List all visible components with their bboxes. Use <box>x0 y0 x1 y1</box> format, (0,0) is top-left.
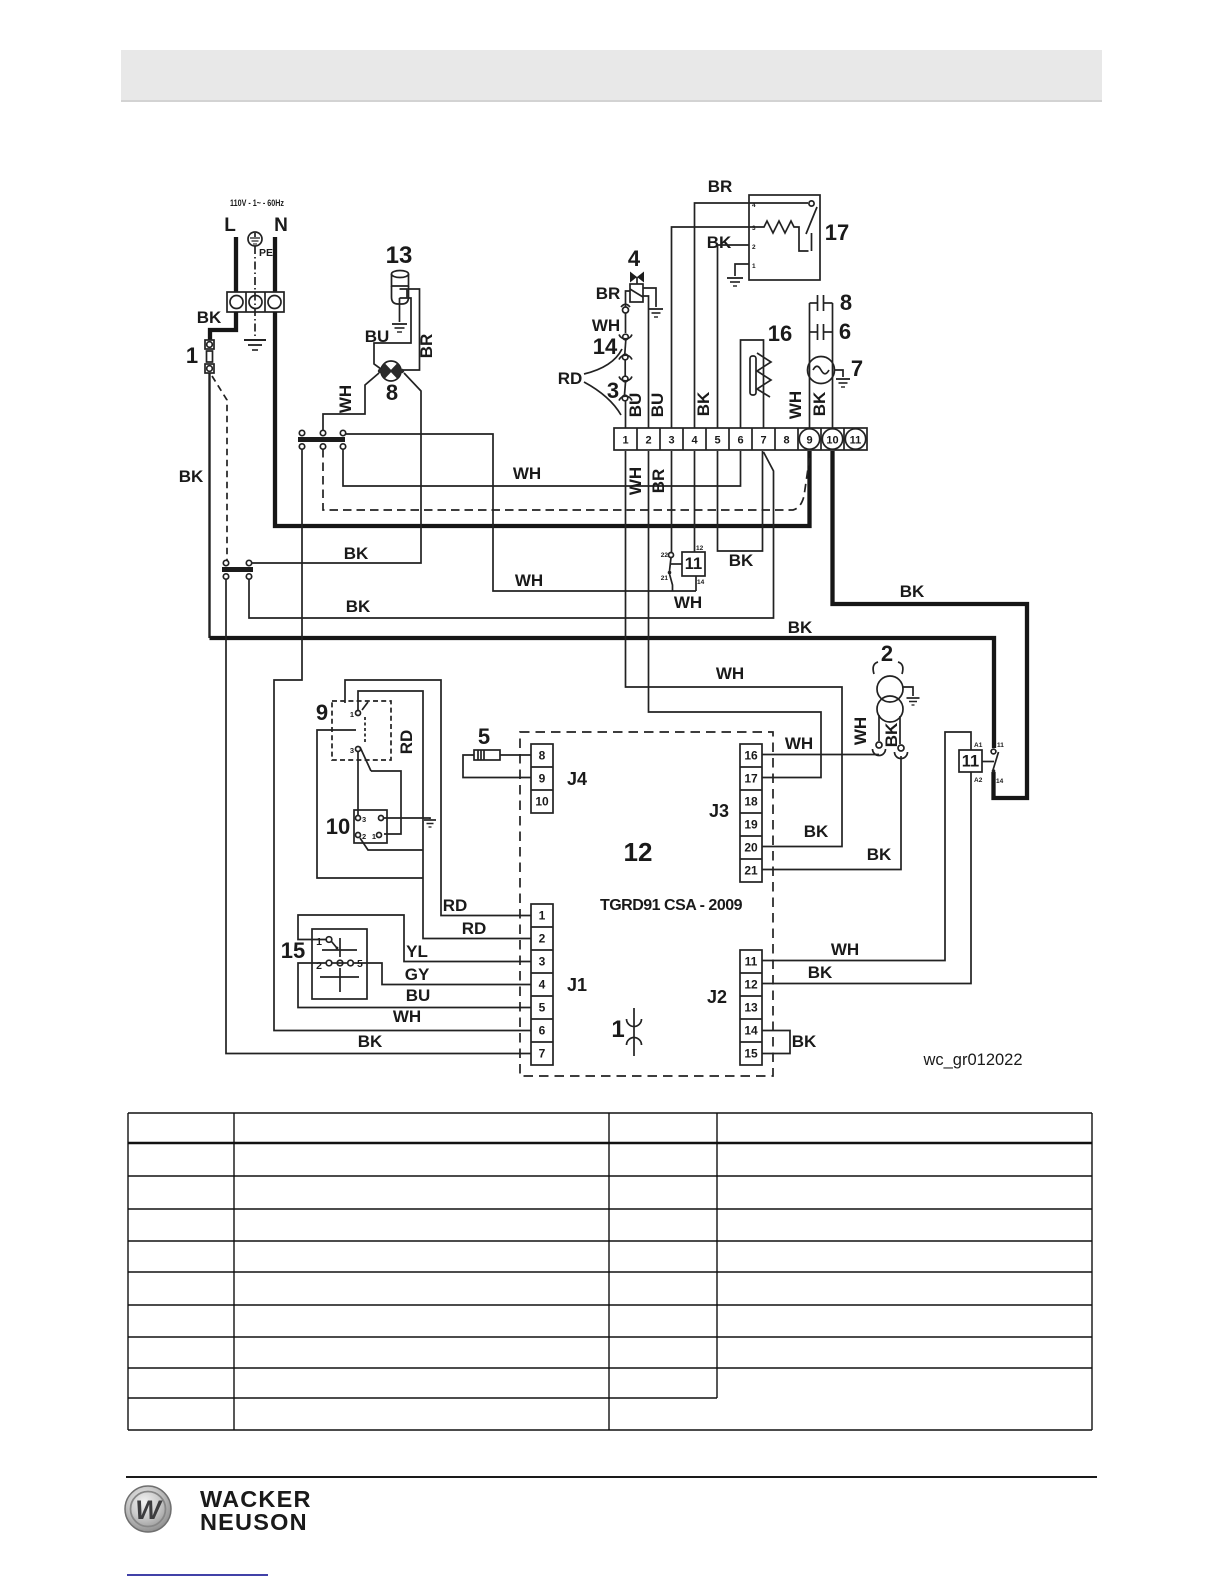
wire WH terminal1 to J3-20 <box>626 451 843 847</box>
wire switch9 output to thermostat pin1 <box>371 771 401 834</box>
wire thermostat pin2 diagonal <box>360 838 423 850</box>
thermostat 10 <box>354 810 387 843</box>
lamp 8 <box>378 361 404 381</box>
svg-text:7: 7 <box>851 356 863 381</box>
wire pin1 to ground <box>735 264 749 276</box>
wire BK thick from relay contact to terminal 10 <box>833 451 1028 798</box>
svg-text:12: 12 <box>744 978 758 992</box>
wire AC to ground <box>835 370 844 377</box>
switch in 17 <box>806 201 817 251</box>
svg-text:3: 3 <box>539 955 546 969</box>
wire WH transformer tap with socket <box>873 715 886 756</box>
svg-text:GY: GY <box>405 965 430 984</box>
svg-text:J1: J1 <box>567 975 587 995</box>
svg-text:RD: RD <box>397 730 416 755</box>
wire BK cap riser to terminal 10 <box>832 303 834 428</box>
logo medallion <box>125 1486 171 1532</box>
disconnect symbol 1 inside box 12 <box>627 1008 642 1056</box>
svg-text:W: W <box>135 1495 163 1525</box>
svg-text:12: 12 <box>624 837 653 867</box>
svg-text:BR: BR <box>649 469 668 494</box>
connector J1 <box>531 904 553 1065</box>
svg-text:J3: J3 <box>709 801 729 821</box>
terminal strip 1-11 <box>614 428 867 450</box>
wire BK connector to J1-7 <box>226 579 531 1054</box>
box 17 (glow plug controller) <box>749 195 820 280</box>
ground for 13 <box>392 324 407 332</box>
wire WH junction to relay 11 <box>346 434 696 591</box>
svg-text:11: 11 <box>997 742 1004 749</box>
svg-text:8: 8 <box>840 290 852 315</box>
header gray bar <box>121 50 1102 102</box>
connector J3 <box>740 744 762 882</box>
connector J2 <box>740 950 762 1065</box>
wire fuse5 to J4-8 <box>500 754 531 756</box>
capacitor 8 <box>810 295 833 311</box>
relay 11 left <box>661 545 705 586</box>
svg-text:16: 16 <box>768 321 792 346</box>
svg-text:WH: WH <box>786 391 805 419</box>
svg-text:7: 7 <box>760 435 766 447</box>
jumper J2-14 to J2-15 <box>762 1031 790 1054</box>
wire BR valve to connector 14 <box>626 291 631 307</box>
svg-text:13: 13 <box>744 1001 758 1015</box>
svg-text:2: 2 <box>316 960 322 972</box>
wire BR terminal3 to contact 22 <box>671 451 673 552</box>
footer link line <box>127 1574 268 1576</box>
svg-text:WH: WH <box>592 316 620 335</box>
svg-text:TGRD91 CSA - 2009: TGRD91 CSA - 2009 <box>600 897 743 914</box>
svg-text:1: 1 <box>539 909 546 923</box>
svg-text:BK: BK <box>788 618 813 637</box>
svg-text:1: 1 <box>316 936 322 948</box>
ground for 10 <box>424 820 436 827</box>
svg-text:1: 1 <box>622 435 628 447</box>
svg-text:BK: BK <box>808 963 833 982</box>
terminal block L-PE-N <box>227 292 284 312</box>
svg-text:11: 11 <box>685 555 702 573</box>
svg-text:BK: BK <box>792 1032 817 1051</box>
svg-text:14: 14 <box>697 579 705 586</box>
svg-text:3: 3 <box>668 435 674 447</box>
svg-text:A2: A2 <box>974 777 983 784</box>
PE terminal symbol <box>248 232 273 259</box>
wire dashed junction to terminal 9 <box>323 449 810 510</box>
wire PE dash-dot <box>254 246 256 338</box>
svg-text:6: 6 <box>539 1024 546 1038</box>
wire J3-16 to WH socket <box>762 754 879 756</box>
switch 9 dashed box <box>332 701 391 771</box>
wire J3-21 to BK socket <box>762 756 901 870</box>
svg-text:WH: WH <box>831 940 859 959</box>
connector pair 3 <box>619 376 632 401</box>
svg-text:21: 21 <box>744 864 758 878</box>
svg-text:19: 19 <box>744 818 758 832</box>
svg-text:2: 2 <box>645 435 651 447</box>
svg-text:BK: BK <box>694 391 713 416</box>
svg-text:4: 4 <box>628 246 641 271</box>
svg-text:WH: WH <box>785 734 813 753</box>
svg-text:BU: BU <box>365 327 390 346</box>
svg-text:11: 11 <box>745 955 758 969</box>
svg-text:2: 2 <box>539 932 546 946</box>
timer switch 15 <box>312 929 367 999</box>
wire BR plug to lamp right <box>403 289 420 370</box>
svg-text:2: 2 <box>362 832 366 841</box>
relay 11 right <box>959 742 1004 785</box>
wire WH J2-11 to coil A1 <box>762 732 971 961</box>
legend table <box>128 1113 1092 1430</box>
svg-text:4: 4 <box>539 978 546 992</box>
svg-text:BU: BU <box>648 393 667 418</box>
svg-text:13: 13 <box>386 242 413 269</box>
wire BK bus thick (L) <box>210 638 995 748</box>
ground PE <box>244 340 266 350</box>
svg-text:14: 14 <box>744 1024 758 1038</box>
svg-text:16: 16 <box>744 749 758 763</box>
svg-text:RD: RD <box>558 369 583 388</box>
svg-text:N: N <box>274 215 288 236</box>
wire BK transformer tap with socket <box>895 716 908 759</box>
svg-text:12: 12 <box>696 545 704 552</box>
wire WH terminal2 to J3-17 <box>649 451 822 778</box>
wire pin3 to thermostat pin3 <box>357 751 359 815</box>
svg-text:NEUSON: NEUSON <box>200 1509 308 1535</box>
svg-text:5: 5 <box>539 1001 546 1015</box>
wire WH cap riser to terminal 9 <box>809 303 811 428</box>
svg-text:BK: BK <box>867 845 892 864</box>
svg-text:WH: WH <box>515 571 543 590</box>
capacitor 6 <box>810 324 833 340</box>
svg-text:BK: BK <box>179 467 204 486</box>
svg-text:WH: WH <box>674 593 702 612</box>
svg-text:15: 15 <box>744 1047 758 1061</box>
svg-text:YL: YL <box>406 942 428 961</box>
svg-text:8: 8 <box>783 435 789 447</box>
svg-text:1: 1 <box>611 1016 624 1043</box>
svg-text:2: 2 <box>752 244 756 251</box>
ground for 4 <box>649 309 663 317</box>
ground for 2 <box>907 698 920 705</box>
svg-text:BK: BK <box>729 551 754 570</box>
svg-text:BK: BK <box>707 233 732 252</box>
svg-text:BR: BR <box>596 284 621 303</box>
svg-text:BR: BR <box>417 334 436 359</box>
svg-text:BK: BK <box>810 391 829 416</box>
wire L to fuse <box>210 312 236 340</box>
svg-text:BK: BK <box>344 544 369 563</box>
svg-text:6: 6 <box>839 319 851 344</box>
wire WH junction to terminal 6 <box>343 449 741 486</box>
solenoid valve 4 <box>630 272 644 303</box>
svg-text:1: 1 <box>372 832 376 841</box>
wire N drop <box>273 237 277 292</box>
contact of relay 11 left <box>668 553 682 592</box>
wire fuse down to BK bus <box>208 373 210 638</box>
connector pair 14 <box>619 334 632 360</box>
svg-text:8: 8 <box>539 749 546 763</box>
svg-text:15: 15 <box>281 938 305 963</box>
ground for 17 <box>727 278 743 286</box>
svg-text:14: 14 <box>996 778 1004 785</box>
svg-text:17: 17 <box>825 220 849 245</box>
svg-text:BU: BU <box>626 393 645 418</box>
svg-text:BK: BK <box>804 822 829 841</box>
svg-text:L: L <box>224 215 236 236</box>
ground for 7 <box>836 379 850 387</box>
wire between connector pairs <box>624 360 626 376</box>
svg-text:21: 21 <box>661 575 669 582</box>
svg-text:9: 9 <box>316 700 328 725</box>
svg-text:1: 1 <box>350 710 354 719</box>
connector J4 <box>531 744 553 813</box>
jumper terminal5-terminal7 <box>718 451 763 551</box>
svg-text:WH: WH <box>513 464 541 483</box>
svg-text:WH: WH <box>716 664 744 683</box>
junction connector 2-pin <box>222 560 253 579</box>
wire BR terminal4 to pin4 and inner top <box>695 203 809 428</box>
svg-text:7: 7 <box>539 1047 546 1061</box>
svg-text:5: 5 <box>714 435 720 447</box>
svg-text:3: 3 <box>752 225 756 232</box>
svg-text:BK: BK <box>358 1032 383 1051</box>
svg-text:20: 20 <box>744 841 758 855</box>
svg-text:WH: WH <box>626 467 645 495</box>
svg-text:11: 11 <box>962 753 979 771</box>
bullet connector <box>621 304 630 313</box>
wire coil pin14 down <box>695 576 697 591</box>
wire connector 3 to terminal 1 <box>625 401 627 428</box>
wire fuse5 to J4-9 <box>463 755 531 778</box>
svg-text:BK: BK <box>882 722 901 747</box>
resistor in 17 with pin3 wire to terminal 3 <box>672 221 809 428</box>
svg-text:BK: BK <box>900 582 925 601</box>
wire N bus thick to terminal 9 <box>275 312 810 526</box>
svg-text:RD: RD <box>443 896 468 915</box>
svg-text:18: 18 <box>744 795 758 809</box>
svg-text:BK: BK <box>346 597 371 616</box>
svg-text:8: 8 <box>386 380 398 405</box>
svg-text:1: 1 <box>186 343 198 368</box>
wire YL pin1 to J1-3 <box>298 915 531 962</box>
footer rule <box>126 1476 1097 1478</box>
svg-text:17: 17 <box>744 772 758 786</box>
svg-text:10: 10 <box>326 814 350 839</box>
wire WH lamp to junction <box>323 373 379 430</box>
svg-text:22: 22 <box>661 552 669 559</box>
wire BU pin2 to J1-5 <box>298 963 531 1008</box>
svg-text:BR: BR <box>708 177 733 196</box>
svg-text:WH: WH <box>393 1007 421 1026</box>
wire thermostat to ground <box>384 818 431 819</box>
svg-text:RD: RD <box>462 919 487 938</box>
svg-text:2: 2 <box>881 641 893 666</box>
wire valve to ground <box>643 288 656 307</box>
svg-text:110V - 1~ - 60Hz: 110V - 1~ - 60Hz <box>230 198 284 208</box>
svg-text:WH: WH <box>336 385 355 413</box>
wire GY pin5 to J1-4 <box>353 963 531 985</box>
svg-text:14: 14 <box>593 334 618 359</box>
wire switch9 left to J1-2 node <box>317 730 423 878</box>
svg-text:3: 3 <box>362 815 366 824</box>
spark plug 13 <box>392 271 409 323</box>
svg-text:5: 5 <box>357 958 363 970</box>
contact of relay 11 right <box>983 749 999 773</box>
svg-text:10: 10 <box>535 795 549 809</box>
svg-text:5: 5 <box>478 724 490 749</box>
wire BK connector to terminal7 riser <box>249 452 774 618</box>
wire to pair 14 <box>625 313 627 333</box>
junction connector 3-pin <box>298 430 346 449</box>
transformer 2 <box>873 662 903 722</box>
svg-text:BU: BU <box>406 986 431 1005</box>
igniter 16 <box>741 340 772 428</box>
wire BK pin2 to terminal 5 <box>718 245 750 428</box>
wire switch9 outer to J1-1 <box>345 680 531 916</box>
svg-text:3: 3 <box>350 746 354 755</box>
wire dashed from fuse to connector <box>212 376 227 561</box>
svg-text:BK: BK <box>197 308 222 327</box>
controller box 12 dashed <box>520 732 773 1076</box>
svg-text:6: 6 <box>737 435 743 447</box>
svg-text:4: 4 <box>691 435 698 447</box>
svg-text:9: 9 <box>806 435 812 447</box>
wire BU valve to terminal 2 <box>643 296 649 428</box>
svg-text:J2: J2 <box>707 987 727 1007</box>
svg-text:1: 1 <box>752 263 756 270</box>
svg-text:WH: WH <box>851 717 870 745</box>
wire transformer to ground <box>903 687 913 696</box>
svg-text:11: 11 <box>850 435 862 447</box>
svg-text:J4: J4 <box>567 769 587 789</box>
wire L drop <box>234 237 238 292</box>
wire lamp right down to BK wire <box>252 373 421 563</box>
wire coil pin12 to terminal 4 <box>694 451 696 552</box>
AC source 7 <box>808 357 835 384</box>
fuse 5 <box>474 750 500 760</box>
wire switch9 pin1 loop to J1-2 <box>358 691 531 939</box>
wire WH junction to J1-6 <box>274 449 531 1031</box>
logo wordmark <box>200 1486 312 1535</box>
svg-text:9: 9 <box>539 772 546 786</box>
svg-text:10: 10 <box>826 435 838 447</box>
wire BK J2-12 to coil A2 <box>762 772 971 984</box>
wire BU plug to lamp <box>374 298 411 369</box>
svg-text:A1: A1 <box>974 742 983 749</box>
svg-text:wc_gr012022: wc_gr012022 <box>922 1051 1022 1069</box>
svg-text:PE: PE <box>259 247 273 259</box>
fuse 1 <box>205 340 214 373</box>
